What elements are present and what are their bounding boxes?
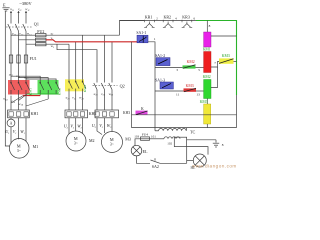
wire node 1 xyxy=(148,42,155,131)
thermal relay KH1 xyxy=(8,110,30,118)
wire KM1 coil right to bus xyxy=(211,35,237,37)
svg-text:TC: TC xyxy=(190,130,196,135)
coil KM2 (red) xyxy=(204,52,211,73)
svg-text:A: A xyxy=(10,122,13,126)
wire KM3 coil right xyxy=(211,67,218,88)
coil KM3 (green) xyxy=(204,80,211,99)
svg-text:w31: w31 xyxy=(109,92,114,97)
motor M1 xyxy=(9,139,29,159)
svg-text:KM1: KM1 xyxy=(203,48,211,52)
svg-text:103: 103 xyxy=(134,135,139,139)
motor M3 xyxy=(102,132,123,153)
svg-text:KM3: KM3 xyxy=(83,85,87,92)
svg-text:v14: v14 xyxy=(11,99,16,104)
red control wire from FU2 to SA1-1 xyxy=(46,40,137,42)
svg-text:U3: U3 xyxy=(92,123,97,129)
switch Q1 blades xyxy=(6,24,33,31)
contactor KM2 main contacts (green block) xyxy=(38,80,60,99)
rail u1 xyxy=(46,34,120,36)
svg-text:W3: W3 xyxy=(107,123,112,129)
svg-text:~380V: ~380V xyxy=(20,1,33,6)
fuse FU2 (three fuses) xyxy=(11,34,46,46)
svg-text:u11: u11 xyxy=(10,7,14,12)
wire reversing links below KM1/KM2 xyxy=(11,94,59,110)
svg-text:W2: W2 xyxy=(77,124,82,130)
svg-text:7: 7 xyxy=(214,61,216,65)
svg-text:u14: u14 xyxy=(3,97,8,102)
svg-text:2: 2 xyxy=(156,17,158,21)
contact KR1 (thermal NC) xyxy=(144,20,154,28)
contact KR2 (thermal NC) xyxy=(163,20,173,28)
transformer TC secondary winding 1 xyxy=(150,137,180,139)
svg-text:SA1-1: SA1-1 xyxy=(136,31,146,35)
svg-text:3~: 3~ xyxy=(17,149,21,153)
svg-text:KH1: KH1 xyxy=(31,111,39,116)
distribution wire w to Q2 xyxy=(57,44,97,82)
wire control top rail xyxy=(120,20,197,22)
wire row SA1-3 xyxy=(155,90,184,92)
wire bus lower part xyxy=(236,95,238,128)
svg-text:M2: M2 xyxy=(89,138,95,143)
wire bottom control rail xyxy=(132,127,237,129)
svg-text:SA2: SA2 xyxy=(152,164,159,169)
fuse FU4 xyxy=(141,138,151,140)
svg-text:KR3: KR3 xyxy=(182,15,190,20)
wire secondary2 to ground xyxy=(187,139,216,141)
lamp EL xyxy=(131,145,142,156)
svg-text:M: M xyxy=(17,143,21,148)
wire phases Q1 to FU1 xyxy=(11,31,26,55)
switch Q2 blades xyxy=(93,83,118,90)
svg-text:M1: M1 xyxy=(33,144,39,149)
wire FU1 to KM1 contacts xyxy=(11,55,26,80)
svg-text:v12: v12 xyxy=(19,32,24,37)
lamp HL xyxy=(193,154,206,167)
wire K row xyxy=(132,114,237,116)
switch SA2 xyxy=(151,158,161,163)
svg-text:5: 5 xyxy=(198,68,200,72)
svg-text:v11: v11 xyxy=(18,7,22,12)
wire row SA1-2 xyxy=(155,67,183,69)
wire yellow element bottom to rail xyxy=(206,124,208,128)
contactor KM3 main contacts (yellow block) xyxy=(65,79,86,110)
wire EL to SA2 xyxy=(137,156,151,163)
ground (control earth) xyxy=(213,140,219,147)
svg-text:KR2: KR2 xyxy=(164,15,172,20)
svg-text:w21: w21 xyxy=(79,96,84,101)
wire KM2 coil right / node 7 xyxy=(211,62,219,68)
contact KR3 (thermal NC) xyxy=(182,20,193,28)
wire rail u drops xyxy=(82,35,84,79)
svg-text:www.diangon.com: www.diangon.com xyxy=(192,163,237,168)
wire col2 phase2 drop from red rail xyxy=(75,42,77,80)
svg-text:FU4: FU4 xyxy=(142,133,148,137)
svg-text:11: 11 xyxy=(176,93,180,97)
wire taps to KM2 block xyxy=(11,76,56,80)
wire SA2 to HL branch xyxy=(160,162,187,164)
svg-text:U2: U2 xyxy=(64,124,69,130)
svg-text:KM3: KM3 xyxy=(186,84,194,88)
wire Q2 to KH3 xyxy=(97,90,112,111)
svg-text:4: 4 xyxy=(175,17,177,21)
svg-text:E: E xyxy=(3,3,6,8)
phase wire L2 top xyxy=(17,11,19,24)
wire HL loop xyxy=(187,147,208,164)
switch SA1-1 xyxy=(137,35,148,43)
svg-text:KM2: KM2 xyxy=(203,75,211,79)
svg-text:KM1: KM1 xyxy=(29,88,33,95)
svg-text:V1: V1 xyxy=(13,129,17,135)
svg-text:3: 3 xyxy=(176,68,178,72)
svg-text:V3: V3 xyxy=(99,123,104,129)
svg-text:1: 1 xyxy=(154,37,156,41)
motor M2 xyxy=(66,131,86,151)
coil KM1 (magenta) xyxy=(204,21,211,48)
svg-text:KR1: KR1 xyxy=(145,15,153,20)
wire drop from red rail to K row and bottom rail xyxy=(131,42,133,128)
svg-text:8: 8 xyxy=(209,24,211,28)
wire fuse to EL lamp xyxy=(135,139,141,146)
svg-text:W1: W1 xyxy=(20,129,25,135)
svg-text:SA1-2: SA1-2 xyxy=(155,54,165,58)
transformer TC secondary winding 2 (box) xyxy=(174,137,186,146)
svg-text:KH2: KH2 xyxy=(89,111,97,116)
svg-text:M: M xyxy=(110,137,114,142)
svg-text:6: 6 xyxy=(194,17,196,21)
wire KH3 to motor M3 xyxy=(97,118,112,135)
svg-text:FU1: FU1 xyxy=(30,56,37,61)
wire KH1 to motor M1 xyxy=(19,118,27,142)
wire Q2 phase3 drop from red rail xyxy=(111,42,113,83)
svg-text:w11: w11 xyxy=(25,7,29,12)
svg-text:u12: u12 xyxy=(12,32,17,37)
svg-text:Q1: Q1 xyxy=(34,22,39,27)
svg-text:M: M xyxy=(74,136,78,141)
svg-text:V2: V2 xyxy=(70,124,75,130)
wire KM3 coil bottom to resistor xyxy=(206,99,208,105)
svg-text:FU2: FU2 xyxy=(37,29,44,34)
svg-text:3~: 3~ xyxy=(74,141,78,145)
switch SA1-2 xyxy=(156,58,170,66)
wire KH2 to motor M2 xyxy=(69,118,83,134)
thermal relay KH2 xyxy=(65,110,88,118)
phase wire L1 top xyxy=(10,11,12,24)
phase wire L3 top xyxy=(25,11,27,24)
svg-text:w14: w14 xyxy=(18,102,23,107)
transformer TC primary xyxy=(155,128,187,131)
svg-text:Q2: Q2 xyxy=(120,84,125,89)
svg-text:K: K xyxy=(141,107,144,111)
svg-text:SA1-3: SA1-3 xyxy=(155,78,165,82)
contact KM2 aux NC (green) xyxy=(183,65,204,69)
svg-text:101: 101 xyxy=(151,135,156,139)
contact KM2 aux (red patch) xyxy=(184,88,204,92)
fuse FU1 three cartridges xyxy=(9,55,27,63)
switch K (magenta patch) xyxy=(136,111,148,115)
svg-text:3~: 3~ xyxy=(110,142,114,146)
rail w1 xyxy=(46,43,69,45)
contact KM3 aux NC (yellow) xyxy=(219,58,237,63)
svg-text:HL: HL xyxy=(191,166,196,170)
wire col2 phase1 drop xyxy=(68,44,70,79)
thermal relay KH3 xyxy=(95,110,119,118)
svg-text:M3: M3 xyxy=(125,137,131,142)
wire green bus top and right xyxy=(196,21,237,96)
wire rail u up to control xyxy=(120,21,145,36)
svg-text:KM3: KM3 xyxy=(222,54,230,58)
wire PE down left edge to M1 frame xyxy=(5,11,10,146)
svg-text:KM3: KM3 xyxy=(200,100,208,104)
svg-text:U1: U1 xyxy=(5,129,9,135)
svg-text:KM2: KM2 xyxy=(58,88,62,95)
svg-text:EL: EL xyxy=(143,149,148,154)
svg-text:8: 8 xyxy=(222,143,224,147)
svg-text:KM2: KM2 xyxy=(187,60,195,64)
svg-text:102: 102 xyxy=(167,142,172,146)
svg-text:w12: w12 xyxy=(27,32,32,37)
svg-text:w1: w1 xyxy=(51,44,54,49)
svg-text:13: 13 xyxy=(196,93,200,97)
contactor KM1 main contacts (red block) xyxy=(8,80,30,95)
resistor yellow element xyxy=(204,104,211,124)
switch SA1-3 xyxy=(160,82,173,89)
ammeter A xyxy=(7,118,15,144)
svg-text:KH3: KH3 xyxy=(123,111,130,115)
ground E (supply earth) xyxy=(2,8,9,11)
